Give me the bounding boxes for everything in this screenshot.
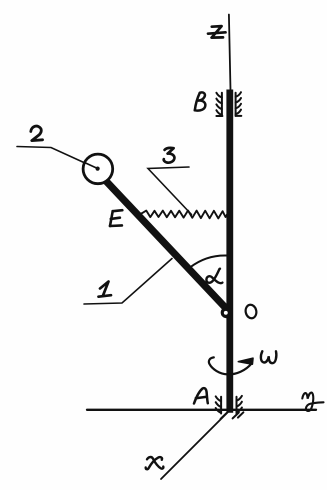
- label omega: [261, 351, 276, 363]
- omega rotation arc: [209, 357, 252, 374]
- leader tail inside ball: [85, 163, 97, 169]
- label y: [302, 393, 323, 411]
- leader to ball 2: [17, 147, 97, 169]
- label Z: [208, 26, 226, 37]
- axis y line: [87, 409, 316, 411]
- bearing B left wall: [216, 93, 222, 116]
- label x: [146, 457, 164, 469]
- omega arrowhead: [238, 358, 253, 364]
- label O: [244, 304, 257, 320]
- bearing A left wall: [216, 396, 227, 418]
- axis Z thin line: [229, 15, 231, 91]
- ball center dot: [96, 167, 100, 171]
- angle alpha arc: [190, 255, 227, 267]
- spring 3: [138, 211, 228, 219]
- label 3: [164, 148, 175, 163]
- bearing A right wall: [233, 396, 244, 419]
- rod 1: [106, 181, 229, 312]
- leader from 1 to rod: [84, 259, 172, 305]
- shaft (thick vertical rod): [226, 90, 233, 413]
- axis x line: [161, 411, 230, 480]
- label 2: [31, 126, 43, 141]
- label E: [110, 210, 122, 226]
- label 1: [99, 282, 112, 297]
- pivot pin at O: [223, 310, 229, 316]
- bearing B right wall: [236, 92, 242, 116]
- pivot pin boss at O: [221, 307, 232, 318]
- label B: [195, 92, 206, 110]
- leader from 3 to spring: [148, 167, 192, 215]
- label A: [194, 388, 208, 403]
- label alpha: [206, 269, 222, 283]
- ball 2: [83, 154, 113, 184]
